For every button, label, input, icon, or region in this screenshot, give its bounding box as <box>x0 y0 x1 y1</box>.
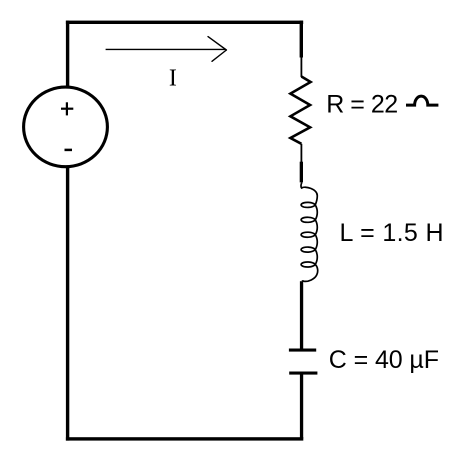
wire bottom <box>66 437 303 440</box>
V1 minus sign <box>65 149 73 152</box>
svg-text:C = 40 µF: C = 40 µF <box>329 346 439 374</box>
current arrow shaft <box>106 48 226 50</box>
wire left upper (top corner to source) <box>66 21 69 87</box>
ohm symbol (drawn) <box>406 96 438 105</box>
wire right upper (top corner to resistor) <box>300 21 303 58</box>
inductor L coil spine (hooks and right arcs) <box>301 182 318 281</box>
wire left lower (source to bottom corner) <box>66 166 69 441</box>
V1 plus sign <box>61 102 73 115</box>
svg-text:I: I <box>169 65 177 91</box>
voltage source V1 <box>24 87 108 167</box>
wire stub between resistor and inductor <box>300 162 303 183</box>
inductor L loop 2 <box>301 217 315 222</box>
wire inductor to capacitor <box>300 281 303 349</box>
capacitor C top plate <box>289 349 316 352</box>
capacitor C bottom plate <box>289 372 317 375</box>
resistor R zigzag <box>290 77 310 144</box>
inductor L loop 3 <box>301 232 315 237</box>
wire capacitor to bottom <box>300 375 303 439</box>
inductor L loop 5 <box>301 262 315 267</box>
inductor L loop 4 <box>301 247 315 252</box>
current arrow head <box>208 37 226 62</box>
svg-text:R = 22: R = 22 <box>326 91 397 119</box>
inductor L loop 1 <box>301 202 315 207</box>
wire top <box>66 21 303 24</box>
svg-text:L = 1.5 H: L = 1.5 H <box>340 219 444 247</box>
resistor R bottom lead <box>300 144 302 163</box>
resistor R top lead <box>300 57 302 77</box>
